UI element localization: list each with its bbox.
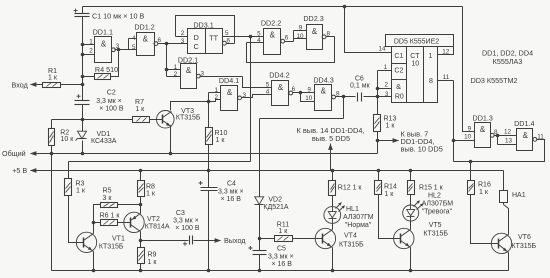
svg-text:3: 3 (181, 38, 185, 45)
svg-text:DD1.2: DD1.2 (134, 23, 154, 32)
svg-text:D: D (194, 33, 199, 42)
svg-text:КД521А: КД521А (263, 204, 288, 211)
svg-text:1 к: 1 к (384, 191, 394, 198)
svg-text:3,3 мк ×: 3,3 мк × (218, 188, 244, 195)
svg-text:CT: CT (410, 53, 420, 60)
svg-text:&: & (278, 83, 284, 92)
svg-text:DD1.4: DD1.4 (514, 119, 534, 128)
svg-text:R5: R5 (103, 188, 112, 195)
svg-text:1 к: 1 к (216, 137, 226, 144)
svg-text:HL2: HL2 (428, 192, 441, 199)
svg-text:× 100 В: × 100 В (99, 106, 124, 113)
svg-text:1: 1 (384, 64, 388, 71)
svg-text:&: & (101, 40, 107, 49)
svg-text:&: & (312, 27, 318, 36)
svg-text:6: 6 (292, 86, 296, 93)
svg-text:10: 10 (296, 33, 304, 40)
svg-text:R4 510: R4 510 (95, 65, 118, 74)
svg-text:C6: C6 (355, 75, 364, 82)
svg-text:выв. 5 DD5: выв. 5 DD5 (312, 134, 350, 143)
svg-text:"Тревога": "Тревога" (422, 208, 453, 215)
svg-text:1 к: 1 к (135, 106, 145, 113)
svg-text:6: 6 (227, 37, 231, 44)
svg-text:9: 9 (299, 25, 303, 32)
svg-text:&: & (523, 131, 529, 140)
svg-text:+5 В: +5 В (12, 166, 27, 175)
svg-text:&: & (480, 125, 486, 134)
svg-text:6: 6 (158, 37, 162, 44)
svg-text:VT2: VT2 (147, 216, 160, 223)
svg-text:VT1: VT1 (112, 235, 125, 242)
svg-text:DD1.1: DD1.1 (93, 28, 113, 37)
svg-text:К555ЛА3: К555ЛА3 (493, 57, 523, 66)
svg-text:выв. 10 DD5: выв. 10 DD5 (401, 144, 443, 153)
svg-text:&: & (143, 35, 149, 44)
svg-text:1 к: 1 к (148, 259, 158, 266)
svg-text:9: 9 (468, 125, 472, 132)
svg-text:DD2.2: DD2.2 (261, 19, 281, 28)
svg-text:C1 10 мк × 10 В: C1 10 мк × 10 В (92, 12, 144, 21)
svg-text:Общий: Общий (2, 149, 26, 158)
svg-text:&: & (227, 88, 233, 97)
svg-text:1 к: 1 к (76, 187, 86, 194)
svg-text:R8: R8 (146, 183, 155, 190)
svg-text:&: & (270, 31, 276, 40)
svg-text:2: 2 (384, 81, 388, 88)
svg-text:5: 5 (225, 30, 229, 37)
svg-text:× 16 В: × 16 В (221, 196, 242, 203)
svg-text:КТ814А: КТ814А (145, 223, 170, 230)
svg-text:VD2: VD2 (268, 196, 282, 203)
svg-text:11: 11 (443, 74, 450, 81)
svg-text:1 к: 1 к (479, 189, 489, 196)
svg-text:3,3 мк ×: 3,3 мк × (96, 98, 122, 105)
svg-text:C2: C2 (394, 68, 403, 75)
svg-text:1: 1 (89, 39, 93, 46)
svg-text:&: & (321, 87, 327, 96)
svg-text:10: 10 (411, 61, 419, 68)
svg-text:4: 4 (266, 88, 270, 95)
svg-text:R6 1 к: R6 1 к (100, 212, 121, 219)
svg-text:&: & (186, 66, 192, 75)
svg-text:&: & (396, 82, 401, 91)
svg-text:1 к: 1 к (146, 190, 156, 197)
svg-text:"Норма": "Норма" (345, 222, 372, 229)
svg-text:R3: R3 (76, 180, 85, 187)
svg-text:R12 1 к: R12 1 к (338, 185, 363, 192)
svg-text:2: 2 (181, 30, 185, 37)
svg-text:10: 10 (305, 95, 313, 102)
svg-text:2: 2 (174, 71, 178, 78)
svg-text:VT6: VT6 (518, 234, 531, 241)
svg-text:VT4: VT4 (344, 233, 357, 240)
svg-text:3,3 мк ×: 3,3 мк × (268, 253, 294, 260)
svg-text:14: 14 (378, 46, 386, 53)
svg-text:VT5: VT5 (429, 222, 442, 229)
svg-text:4: 4 (132, 35, 136, 42)
svg-text:DD4.3: DD4.3 (313, 75, 333, 84)
svg-text:4: 4 (257, 37, 261, 44)
svg-text:C5: C5 (277, 246, 286, 253)
svg-text:КТ315Б: КТ315Б (339, 241, 364, 248)
svg-text:C3: C3 (176, 210, 185, 217)
svg-text:1: 1 (174, 64, 178, 71)
svg-text:3 к: 3 к (103, 195, 113, 202)
svg-text:КТ315Б: КТ315Б (176, 115, 201, 122)
svg-text:КТ315Б: КТ315Б (99, 243, 124, 250)
svg-text:12: 12 (442, 48, 450, 55)
svg-text:8: 8 (429, 78, 433, 85)
svg-text:R13: R13 (384, 115, 397, 122)
svg-text:КТ315Б: КТ315Б (423, 230, 448, 237)
svg-text:R16: R16 (478, 182, 491, 189)
svg-text:DD5 К555ИЕ2: DD5 К555ИЕ2 (394, 38, 439, 45)
svg-text:3,3 мк ×: 3,3 мк × (173, 218, 199, 225)
svg-text:КТ315Б: КТ315Б (512, 243, 537, 250)
svg-text:R0: R0 (395, 93, 404, 100)
svg-text:5: 5 (132, 44, 136, 51)
svg-text:10 к: 10 к (61, 136, 75, 143)
svg-text:1 к: 1 к (386, 122, 396, 129)
svg-text:1 к: 1 к (278, 228, 288, 235)
svg-text:C4: C4 (227, 181, 236, 188)
svg-text:АЛ307ГМ: АЛ307ГМ (343, 214, 374, 221)
svg-text:АЛ307БМ: АЛ307БМ (422, 200, 454, 207)
svg-text:DD4.1: DD4.1 (219, 76, 239, 85)
svg-text:КС433А: КС433А (91, 138, 117, 145)
svg-text:DD3 К555ТМ2: DD3 К555ТМ2 (471, 76, 518, 85)
svg-text:× 16 В: × 16 В (272, 261, 293, 268)
svg-text:10: 10 (464, 134, 472, 141)
svg-text:C: C (194, 42, 200, 51)
svg-text:DD2.3: DD2.3 (303, 14, 323, 23)
svg-text:DD1.3: DD1.3 (473, 113, 493, 122)
svg-text:1: 1 (428, 53, 432, 60)
svg-text:R9: R9 (148, 251, 157, 258)
svg-text:Выход: Выход (224, 236, 246, 245)
svg-text:2: 2 (89, 48, 93, 55)
svg-text:R15 1 к: R15 1 к (419, 185, 444, 192)
svg-text:C1: C1 (394, 53, 403, 60)
svg-text:12: 12 (504, 128, 512, 135)
svg-text:1: 1 (214, 87, 218, 94)
svg-text:VD1: VD1 (97, 131, 111, 138)
svg-text:3: 3 (385, 91, 389, 98)
svg-text:0,1 мк: 0,1 мк (350, 83, 370, 90)
svg-text:13: 13 (505, 138, 513, 145)
svg-text:DD4.2: DD4.2 (269, 70, 289, 79)
svg-text:C2: C2 (107, 89, 116, 96)
svg-text:6: 6 (285, 35, 289, 42)
svg-text:R14: R14 (384, 183, 397, 190)
svg-text:TT: TT (209, 34, 218, 43)
svg-text:HL1: HL1 (346, 206, 359, 213)
svg-text:HA1: HA1 (512, 192, 526, 199)
svg-text:× 100 В: × 100 В (175, 225, 200, 232)
svg-text:1 к: 1 к (48, 74, 58, 81)
svg-text:9: 9 (307, 87, 311, 94)
svg-text:Вход: Вход (12, 81, 29, 90)
